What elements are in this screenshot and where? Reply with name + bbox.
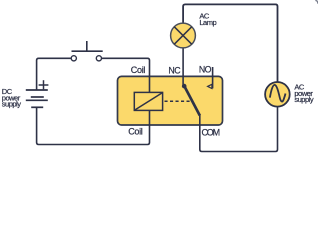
wire: COM terminal to AC supply bbox=[200, 107, 278, 152]
wire: lamp top to AC supply top bbox=[183, 4, 277, 81]
svg-text:COM: COM bbox=[202, 128, 220, 138]
svg-text:Coil: Coil bbox=[131, 65, 146, 75]
wire: battery positive to switch bbox=[37, 58, 71, 90]
relay armature (common pole) bbox=[184, 86, 199, 115]
border frame corner fragment bbox=[315, 0, 317, 3]
lamp L1 (AC lamp) bbox=[171, 23, 196, 48]
relay body U1 (yellow box) bbox=[118, 76, 223, 125]
NO terminal stub bbox=[212, 67, 214, 88]
svg-text:supply: supply bbox=[2, 100, 21, 109]
svg-text:Coil: Coil bbox=[128, 127, 143, 137]
wire: relay coil bottom terminal to battery negative bbox=[37, 107, 150, 144]
NO contact triangle bbox=[208, 84, 212, 88]
push-button switch S1 bbox=[71, 41, 102, 61]
svg-text:NO: NO bbox=[199, 64, 212, 74]
NC contact dot bbox=[182, 84, 187, 89]
svg-text:NC: NC bbox=[168, 65, 181, 75]
AC power supply G1 bbox=[265, 82, 290, 107]
relay coil K1 (rect with diagonal) bbox=[134, 92, 162, 110]
svg-text:supply: supply bbox=[294, 95, 313, 104]
wire: switch to relay coil top terminal bbox=[102, 58, 150, 92]
battery B1 DC supply bbox=[26, 80, 49, 107]
svg-text:Lamp: Lamp bbox=[199, 18, 216, 27]
dashed actuation link bbox=[165, 100, 191, 102]
wire: lamp to NC terminal bbox=[182, 48, 184, 86]
